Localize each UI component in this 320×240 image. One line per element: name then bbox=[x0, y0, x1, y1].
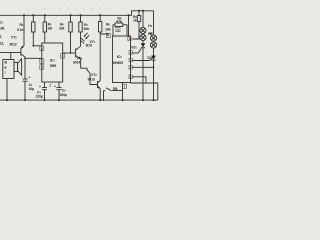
svg-text:20k: 20k bbox=[59, 26, 65, 30]
node junction dots on bottom rail bbox=[6, 99, 155, 101]
svg-text:+: + bbox=[28, 76, 30, 80]
transistor VT2 9012 bbox=[10, 36, 26, 59]
wire top supply rail bbox=[0, 11, 154, 16]
wire rail to IC2 top bbox=[128, 15, 130, 36]
pin 2 of IC2 (boxed) bbox=[123, 84, 127, 89]
pin 8 of IC2 (boxed) bbox=[116, 27, 120, 32]
wire R8 to IC2 pin7 and VT3 collector bbox=[99, 32, 101, 81]
lamp H3 bbox=[140, 32, 153, 41]
svg-text:10μ: 10μ bbox=[29, 87, 35, 91]
thyristor VS2 bbox=[147, 48, 156, 61]
diode VD1 label (cut off at left edge) bbox=[0, 21, 4, 31]
pin 1 of IC2 (boxed) bbox=[128, 37, 131, 41]
svg-text:VT2: VT2 bbox=[11, 36, 17, 40]
wire VT2 emitter to rail bbox=[21, 15, 24, 48]
pin 7 of IC1 (boxed) bbox=[40, 59, 44, 64]
svg-text:555: 555 bbox=[50, 63, 57, 68]
pin 5 of IC2 (boxed) bbox=[129, 66, 132, 70]
svg-text:1M: 1M bbox=[47, 26, 52, 30]
svg-text:9012: 9012 bbox=[10, 42, 17, 46]
wire IC2 pin2 to ground via switch bbox=[122, 83, 124, 101]
capacitor C4 220u bbox=[36, 82, 48, 100]
wire VT3 emitter to ground rail bbox=[99, 89, 101, 101]
svg-text:10k: 10k bbox=[105, 27, 111, 31]
lamp H4 bbox=[150, 42, 156, 48]
capacitor C5 100u bbox=[54, 82, 67, 100]
node junction dots on top rail bbox=[23, 10, 144, 16]
capacitor C1 (VT2 collector to ground) bbox=[23, 58, 35, 102]
svg-text:100μ: 100μ bbox=[60, 93, 67, 97]
resistor R4 5.1k bbox=[17, 15, 35, 32]
pin 4 of IC2 (boxed) bbox=[129, 58, 132, 62]
resistor R7 20k bbox=[79, 15, 89, 32]
IC U2 SH805 box bbox=[113, 36, 131, 83]
svg-text:+: + bbox=[54, 85, 56, 89]
svg-text:20k: 20k bbox=[84, 27, 90, 31]
wire VT4 emitter to VT3 base bbox=[81, 59, 98, 85]
phototransistor VT5 3DU bbox=[81, 32, 96, 48]
svg-text:1: 1 bbox=[49, 83, 51, 87]
svg-text:VS1: VS1 bbox=[131, 46, 137, 50]
wire IC2 pin6 to right ground drop bbox=[132, 77, 146, 83]
wire R4 to IC1 pin2 bbox=[32, 32, 34, 46]
pin 3 of IC1 (boxed) bbox=[61, 54, 65, 59]
wire VS2 cathode to ground rail bbox=[153, 60, 155, 100]
svg-text:SH805: SH805 bbox=[113, 61, 123, 65]
transistor VT1 label (cut off at left edge) bbox=[0, 35, 4, 45]
svg-text:+: + bbox=[39, 85, 41, 89]
lamp H1 bbox=[140, 11, 153, 34]
wire IC2 pin5 bbox=[132, 66, 153, 68]
svg-text:148: 148 bbox=[0, 27, 4, 31]
lamp H2 bbox=[149, 11, 157, 41]
transistor VT4 9014 bbox=[73, 46, 83, 64]
wire microphone to ground rail bbox=[6, 79, 8, 101]
decorative: skip (faint print bleed) bbox=[18, 7, 108, 10]
op-amp / timer IC1 555 box bbox=[42, 43, 63, 82]
resistor R9 (top right, from raised rail) bbox=[133, 11, 141, 23]
svg-text:5.1k: 5.1k bbox=[17, 28, 23, 32]
wire R5 to IC1 top bbox=[44, 32, 46, 43]
wire VT2 base to microphone bbox=[0, 52, 21, 54]
wire VT2 collector to IC1 pin7 bbox=[25, 57, 42, 59]
wire IC2 pin3 to VS1 gate bbox=[132, 52, 138, 54]
svg-text:9013: 9013 bbox=[88, 77, 95, 81]
speaker / sounder symbol bbox=[14, 59, 22, 76]
thyristor VS1 bbox=[131, 41, 145, 53]
potentiometer RP 47k (horizontal, above IC2) bbox=[113, 17, 127, 37]
resistor R8 10k bbox=[99, 15, 111, 32]
svg-text:220μ: 220μ bbox=[36, 94, 43, 98]
pin 6 of IC1 (boxed) bbox=[40, 65, 44, 70]
wire IC2 pin4 to VS2 gate bbox=[132, 60, 149, 62]
wire VS1 cathode to ground rail bbox=[142, 48, 144, 100]
wire IC1 pin3 to VT4 base bbox=[63, 52, 76, 54]
transistor VT3 9013 bbox=[88, 73, 101, 89]
wire R9 to IC2 pin1 bbox=[132, 22, 139, 40]
svg-text:13,: 13, bbox=[0, 41, 4, 45]
svg-text:3DU: 3DU bbox=[86, 44, 93, 48]
pin 6 of IC2 (boxed) bbox=[129, 75, 132, 79]
wire R6 down to pin3 net bbox=[70, 32, 72, 53]
microphone B box bbox=[3, 60, 14, 79]
wire bottom ground rail bbox=[0, 99, 158, 101]
svg-text:47k: 47k bbox=[116, 20, 122, 24]
pin 3 of IC2 (boxed) bbox=[129, 51, 132, 55]
resistor R6 20k bbox=[59, 15, 72, 32]
svg-text:9014: 9014 bbox=[73, 61, 80, 65]
switch SB bbox=[103, 87, 123, 101]
svg-text:VS2: VS2 bbox=[147, 56, 153, 60]
pin 2 of IC1 (boxed) bbox=[40, 46, 44, 51]
resistor R5 1M bbox=[43, 15, 52, 32]
svg-text:SB: SB bbox=[113, 87, 118, 91]
pin 7 of IC2 (boxed) bbox=[106, 33, 110, 38]
svg-text:1k: 1k bbox=[133, 19, 137, 23]
